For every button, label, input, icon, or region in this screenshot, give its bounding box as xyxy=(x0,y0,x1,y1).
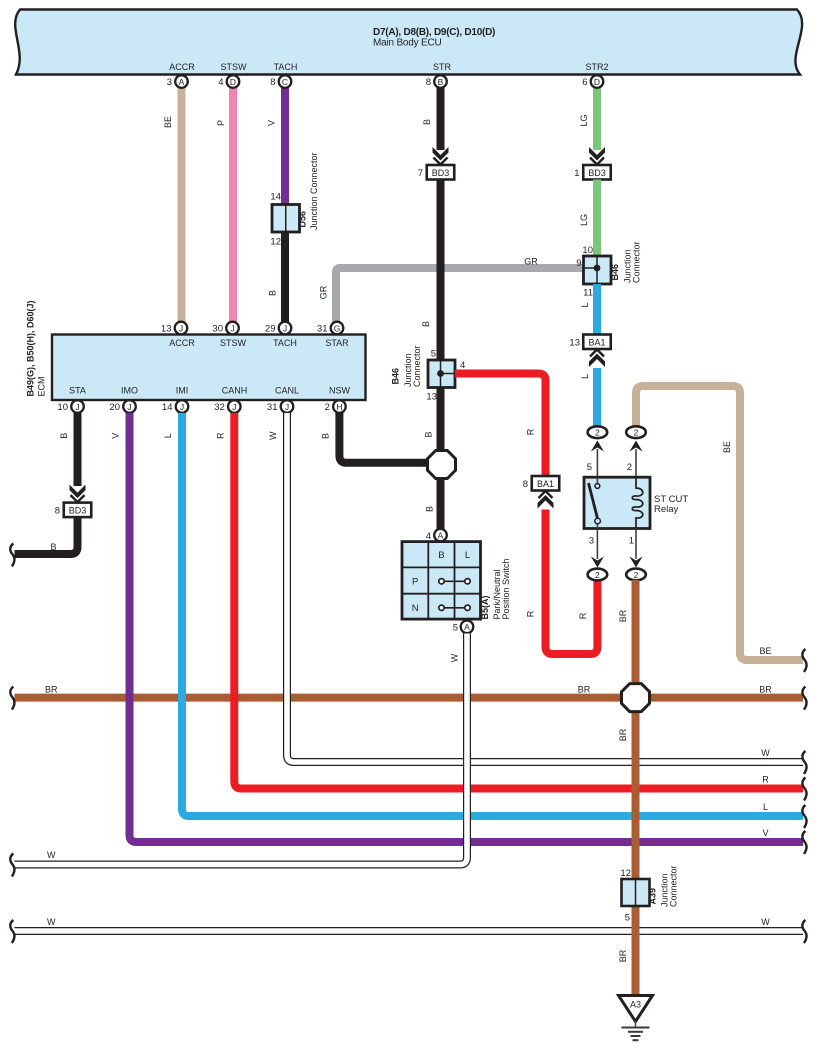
svg-text:A: A xyxy=(438,530,444,540)
ST CUT relay box xyxy=(584,477,688,528)
svg-text:STR2: STR2 xyxy=(585,62,608,72)
arrow double chevron up (below BA1 red) xyxy=(538,491,554,509)
svg-text:31: 31 xyxy=(267,402,278,413)
svg-text:STR: STR xyxy=(433,62,452,72)
arrow double chevron STR2 xyxy=(589,147,605,165)
junction connector B46 (lower, on STR wire) xyxy=(391,345,466,402)
pin 2 H (NSW) xyxy=(325,400,346,413)
svg-text:5: 5 xyxy=(625,913,630,924)
svg-text:Connector: Connector xyxy=(632,241,642,283)
svg-text:B5(A): B5(A) xyxy=(480,595,490,619)
svg-text:30: 30 xyxy=(212,324,223,335)
svg-text:A: A xyxy=(464,622,470,632)
svg-text:B: B xyxy=(268,290,278,296)
svg-text:W: W xyxy=(450,653,460,662)
svg-text:L: L xyxy=(580,302,590,307)
wire STR B black (long, down to P/N switch) xyxy=(421,180,441,530)
pin 31 G (STAR) xyxy=(317,322,343,335)
wire R red (CANH to right torn edge) xyxy=(216,413,804,789)
pin 13 J (ACCR) xyxy=(161,322,187,335)
wire BR horizontal xyxy=(15,685,804,698)
wire L blue (to oval) xyxy=(580,368,597,427)
svg-text:B46: B46 xyxy=(391,368,401,385)
svg-text:STSW: STSW xyxy=(221,62,248,72)
svg-text:ACCR: ACCR xyxy=(169,62,195,72)
wire W white (CANL to right torn edge) xyxy=(268,413,803,762)
pin 8 B (STR) xyxy=(426,75,447,88)
svg-text:4: 4 xyxy=(460,360,465,371)
junction octagon node (STR/NSW) xyxy=(428,451,456,479)
svg-text:W: W xyxy=(47,917,56,927)
svg-text:14: 14 xyxy=(162,402,173,413)
svg-text:BD3: BD3 xyxy=(69,506,87,516)
pin 10 J (STA) xyxy=(57,400,83,413)
wire W white (P/N switch pin 5 down to left torn edge) xyxy=(15,634,468,865)
svg-text:CANL: CANL xyxy=(275,386,299,396)
junction connector A39 xyxy=(620,865,678,923)
connector 13 BA1 xyxy=(569,335,610,350)
wire STR2 LG green top xyxy=(579,87,597,150)
svg-text:5: 5 xyxy=(587,462,592,473)
svg-text:R: R xyxy=(526,610,536,617)
pin 32 J (CANH) xyxy=(214,400,240,413)
svg-text:5: 5 xyxy=(453,623,458,634)
svg-text:V: V xyxy=(762,828,768,838)
svg-text:14: 14 xyxy=(270,192,281,203)
svg-text:J: J xyxy=(127,402,131,412)
oval connector 2 (red wire, relay pin 3) xyxy=(588,569,608,581)
svg-text:13: 13 xyxy=(161,324,172,335)
svg-text:B: B xyxy=(424,431,434,437)
svg-text:BE: BE xyxy=(163,116,173,128)
svg-text:2: 2 xyxy=(595,570,600,580)
svg-text:B: B xyxy=(421,321,431,327)
svg-text:J: J xyxy=(285,402,289,412)
svg-text:W: W xyxy=(268,431,278,440)
wire L blue (IMI to right torn edge) xyxy=(163,413,803,816)
svg-text:TACH: TACH xyxy=(274,62,298,72)
svg-text:B: B xyxy=(425,506,435,512)
svg-text:Connector: Connector xyxy=(412,345,422,387)
svg-text:NSW: NSW xyxy=(329,386,351,396)
svg-text:BD3: BD3 xyxy=(432,168,450,178)
park/neutral position switch B5(A) xyxy=(402,542,511,620)
torn edge mark V right xyxy=(802,831,806,854)
svg-text:1: 1 xyxy=(574,168,579,179)
svg-text:D: D xyxy=(230,77,236,87)
junction octagon node (BR) xyxy=(622,684,650,712)
pin 29 J (TACH) xyxy=(265,322,291,335)
svg-text:1: 1 xyxy=(629,536,634,547)
svg-text:J: J xyxy=(179,323,183,333)
pin 6 D (STR2) xyxy=(582,75,603,88)
svg-text:B49(G), B50(H), D60(J): B49(G), B50(H), D60(J) xyxy=(26,300,36,396)
svg-text:STSW: STSW xyxy=(220,338,247,348)
svg-text:BE: BE xyxy=(759,646,771,656)
pin 8 C (TACH) xyxy=(270,75,291,88)
svg-text:J: J xyxy=(230,323,234,333)
torn edge mark STA xyxy=(10,544,14,567)
pin 4 D (STSW) xyxy=(218,75,239,88)
svg-text:V: V xyxy=(267,120,277,126)
svg-text:BR: BR xyxy=(45,685,58,695)
svg-text:Connector: Connector xyxy=(669,865,679,907)
oval connector 2 (BR wire, relay pin 1) xyxy=(626,569,646,581)
torn edge mark BE right xyxy=(802,649,806,672)
arrow up into oval (pin 5) + lead xyxy=(591,441,604,479)
wire STSW P pink xyxy=(216,87,233,322)
arrow down to oval (pin 1) + lead xyxy=(630,529,643,568)
svg-text:2: 2 xyxy=(634,570,639,580)
svg-text:B: B xyxy=(438,77,444,87)
svg-text:GR: GR xyxy=(319,285,329,299)
svg-text:4: 4 xyxy=(218,77,223,88)
relay switch contact xyxy=(589,478,601,528)
Main Body ECU D7(A),D8(B),D9(C),D10(D) xyxy=(15,10,802,75)
svg-text:L: L xyxy=(763,802,768,812)
svg-text:3: 3 xyxy=(167,77,172,88)
svg-text:8: 8 xyxy=(426,77,431,88)
wire STR2 LG green lower xyxy=(579,180,597,258)
oval connector 2 (BE wire, relay pin 2) xyxy=(626,426,646,438)
svg-text:8: 8 xyxy=(270,77,275,88)
svg-text:B: B xyxy=(51,542,57,552)
svg-text:G: G xyxy=(334,323,341,333)
wire W white (full width bottom) xyxy=(15,917,804,931)
svg-text:BD3: BD3 xyxy=(588,168,606,178)
svg-text:J: J xyxy=(75,402,79,412)
svg-text:3: 3 xyxy=(589,536,594,547)
svg-text:L: L xyxy=(163,433,173,438)
ECM B49(G),B50(H),D60(J) xyxy=(26,300,366,400)
wire BR vertical (relay pin1 to ground) xyxy=(618,580,636,996)
pin 30 J (STSW) xyxy=(212,322,238,335)
svg-text:P: P xyxy=(412,577,418,588)
pin 14 J (IMI) xyxy=(162,400,188,413)
svg-text:Main Body ECU: Main Body ECU xyxy=(373,37,442,48)
svg-text:13: 13 xyxy=(426,392,437,403)
svg-text:LG: LG xyxy=(579,114,589,126)
wire STAR GR gray xyxy=(319,257,584,323)
torn edge mark BR left xyxy=(10,687,14,710)
svg-text:L: L xyxy=(580,374,590,379)
junction connector B46 (upper right) xyxy=(576,241,641,298)
oval connector 2 (L wire, relay pin 5) xyxy=(588,426,608,438)
torn edge mark W bottom left xyxy=(10,920,14,943)
svg-text:Junction Connector: Junction Connector xyxy=(309,152,319,230)
wire STA B black upper xyxy=(59,413,78,486)
svg-text:C: C xyxy=(282,77,288,87)
svg-text:TACH: TACH xyxy=(273,338,297,348)
connector 7 BD3 xyxy=(418,165,455,180)
svg-text:H: H xyxy=(336,402,342,412)
svg-text:R: R xyxy=(526,428,536,435)
arrow double chevron up (below BA1) xyxy=(589,350,605,368)
svg-text:10: 10 xyxy=(57,402,68,413)
svg-text:BE: BE xyxy=(722,441,732,453)
svg-text:W: W xyxy=(47,850,56,860)
connector 8 BD3 (STA) xyxy=(55,503,92,517)
connector 1 BD3 xyxy=(574,165,611,180)
arrow double chevron STR xyxy=(433,147,449,165)
svg-text:2: 2 xyxy=(595,428,600,438)
svg-text:BA1: BA1 xyxy=(537,479,554,489)
svg-text:W: W xyxy=(761,917,770,927)
svg-text:Position Switch: Position Switch xyxy=(501,558,511,619)
svg-text:LG: LG xyxy=(579,214,589,226)
torn edge mark BR right xyxy=(802,687,806,710)
pin 3 A (ACCR) xyxy=(167,75,188,88)
relay coil xyxy=(632,478,643,529)
pin 20 J (IMO) xyxy=(109,400,135,413)
svg-text:5: 5 xyxy=(431,349,436,360)
svg-text:2: 2 xyxy=(627,462,632,473)
svg-text:GR: GR xyxy=(524,257,538,267)
svg-text:CANH: CANH xyxy=(222,386,248,396)
svg-text:STAR: STAR xyxy=(325,338,349,348)
svg-text:ACCR: ACCR xyxy=(169,338,195,348)
torn edge mark W bottom right xyxy=(802,920,806,943)
svg-text:10: 10 xyxy=(582,245,593,256)
svg-text:11: 11 xyxy=(583,288,593,299)
pin 5 A circle xyxy=(453,621,474,634)
wire STA B black lower to torn edge xyxy=(15,517,78,554)
svg-text:D56: D56 xyxy=(298,211,308,228)
svg-text:B46: B46 xyxy=(610,264,620,281)
wire V purple (IMO to right torn edge) xyxy=(111,413,804,842)
arrow up into oval (pin 2) + lead xyxy=(630,441,643,479)
svg-text:2: 2 xyxy=(325,402,330,413)
wire L blue (B46 to BA1) xyxy=(580,284,597,335)
svg-text:BR: BR xyxy=(759,685,772,695)
torn edge mark W right xyxy=(802,751,806,774)
svg-text:IMO: IMO xyxy=(121,386,138,396)
svg-text:7: 7 xyxy=(418,168,423,179)
svg-text:13: 13 xyxy=(569,338,580,349)
svg-text:B: B xyxy=(59,433,69,439)
svg-text:B: B xyxy=(438,550,444,561)
svg-text:IMI: IMI xyxy=(176,386,189,396)
svg-text:N: N xyxy=(412,603,419,614)
svg-text:8: 8 xyxy=(55,506,60,517)
svg-text:32: 32 xyxy=(214,402,225,413)
svg-text:B: B xyxy=(321,433,331,439)
wire NSW B black xyxy=(321,413,429,463)
svg-text:12: 12 xyxy=(270,237,281,248)
svg-text:12: 12 xyxy=(620,868,631,879)
svg-text:ECM: ECM xyxy=(37,377,47,397)
svg-text:J: J xyxy=(180,402,184,412)
svg-text:J: J xyxy=(283,323,287,333)
svg-text:P: P xyxy=(216,120,226,126)
junction connector D56 xyxy=(270,152,319,247)
svg-text:J: J xyxy=(232,402,236,412)
svg-text:STA: STA xyxy=(69,386,86,396)
ground A3 xyxy=(619,996,653,1041)
svg-text:BR: BR xyxy=(578,685,591,695)
wire ACCR BE tan xyxy=(163,87,182,322)
svg-text:W: W xyxy=(761,748,770,758)
wire TACH B black (lower) xyxy=(268,231,286,322)
svg-text:A: A xyxy=(179,77,185,87)
wire red R (B46 pin4 to ST CUT relay) xyxy=(455,374,546,477)
svg-text:A39: A39 xyxy=(648,888,658,905)
svg-text:6: 6 xyxy=(582,77,587,88)
svg-text:31: 31 xyxy=(317,324,328,335)
svg-text:BR: BR xyxy=(618,728,628,741)
svg-text:V: V xyxy=(111,433,121,439)
connector 8 BA1 xyxy=(523,476,560,491)
wire STR B black top xyxy=(422,87,441,150)
svg-text:A3: A3 xyxy=(630,1000,641,1010)
svg-text:20: 20 xyxy=(109,402,120,413)
svg-text:R: R xyxy=(216,432,226,439)
svg-text:L: L xyxy=(465,550,470,561)
torn edge mark W left (upper) xyxy=(10,854,14,877)
pin 31 J (CANL) xyxy=(267,400,293,413)
svg-text:29: 29 xyxy=(265,324,276,335)
torn edge mark R right xyxy=(802,778,806,801)
arrow double chevron STA xyxy=(70,485,86,503)
arrow down to oval (pin 3) + lead xyxy=(591,529,604,568)
wire TACH V purple (upper) xyxy=(267,87,286,205)
svg-text:9: 9 xyxy=(576,258,581,269)
svg-text:D: D xyxy=(594,77,600,87)
svg-text:R: R xyxy=(578,612,588,619)
wire tan BE (oval 2 top right, up and right to torn edge) xyxy=(636,386,803,660)
svg-text:2: 2 xyxy=(634,428,639,438)
svg-text:R: R xyxy=(762,775,769,785)
wire red R lower (to oval 2) xyxy=(526,510,598,655)
svg-text:B: B xyxy=(422,119,432,125)
svg-text:BA1: BA1 xyxy=(588,338,605,348)
svg-text:Relay: Relay xyxy=(654,504,679,515)
torn edge mark L right xyxy=(802,805,806,828)
svg-text:BR: BR xyxy=(618,609,628,622)
svg-text:BR: BR xyxy=(618,949,628,962)
pin 4 A circle xyxy=(426,529,447,542)
svg-text:8: 8 xyxy=(523,479,528,490)
